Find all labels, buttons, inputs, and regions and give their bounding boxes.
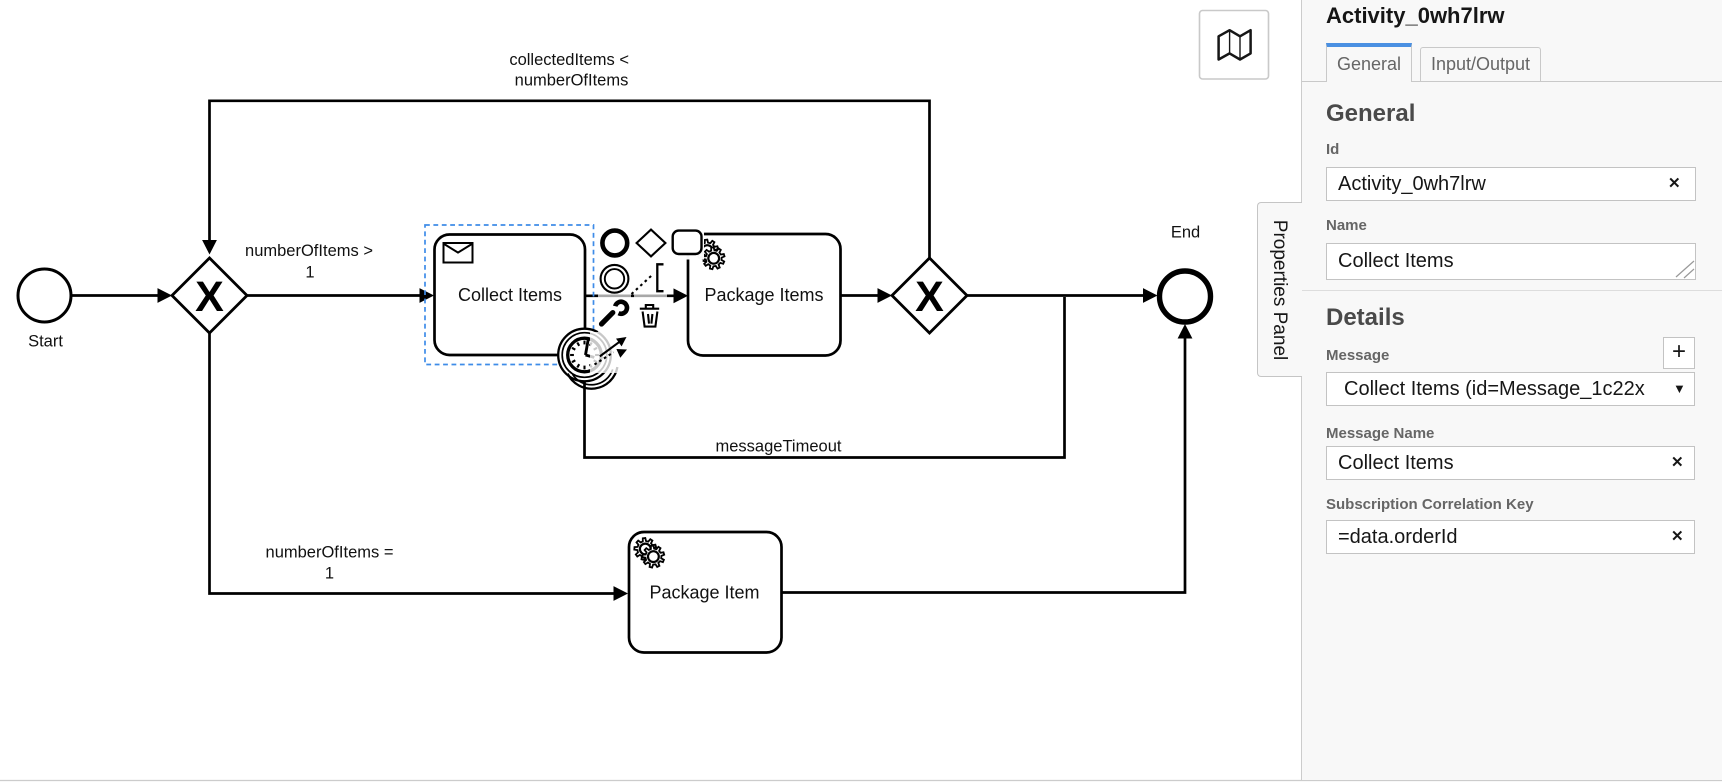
svg-text:End: End <box>1171 224 1200 242</box>
wire Package Items to Gateway2 <box>841 294 881 297</box>
wire Gateway1 to Collect Items (numberOfItems > 1) <box>247 294 422 297</box>
timer boundary event drag ghost arcs <box>568 367 618 389</box>
svg-text:X: X <box>915 273 944 321</box>
context pad: append intermediate event icon <box>601 265 629 293</box>
wire Collect Items to Package Items <box>585 294 677 297</box>
svg-text:X: X <box>195 273 224 321</box>
arrowhead into End bottom <box>1178 324 1193 339</box>
svg-text:collectedItems <: collectedItems < <box>509 51 629 69</box>
selection outline (Collect Items selected) <box>425 225 594 365</box>
svg-text:1: 1 <box>305 263 314 281</box>
wire Gateway2 to End <box>967 294 1146 297</box>
wire Gateway1 bottom to Package Item (numberOfItems = 1) <box>210 333 617 594</box>
wire Start to Gateway1 <box>72 294 160 297</box>
clear button for Message Name <box>1671 453 1684 471</box>
context pad: append gateway icon <box>637 230 666 257</box>
task Package Item (service task) <box>629 532 782 653</box>
properties panel collapse tab <box>1257 202 1302 377</box>
gateway G2 (exclusive XOR merge) <box>892 258 967 333</box>
section heading General <box>1326 100 1415 128</box>
svg-text:Collect Items: Collect Items <box>458 285 562 305</box>
service gear marker on Package Item <box>634 538 664 568</box>
tabs bottom border <box>1302 81 1722 82</box>
context pad: connect tool arrow <box>600 337 627 356</box>
select Message <box>1326 372 1695 406</box>
svg-text:Start: Start <box>28 333 63 351</box>
minimap toggle button <box>1200 11 1269 80</box>
svg-text:messageTimeout: messageTimeout <box>716 438 842 456</box>
arrowhead into Package Items <box>674 288 689 303</box>
svg-text:numberOfItems >: numberOfItems > <box>245 242 373 260</box>
svg-text:Package Item: Package Item <box>649 583 759 603</box>
svg-text:numberOfItems =: numberOfItems = <box>266 544 394 562</box>
wire Package Item to End <box>782 336 1186 593</box>
select dropdown arrow <box>1673 381 1686 396</box>
label Id <box>1326 141 1339 158</box>
context pad: wrench (change type) icon <box>602 302 627 324</box>
clear button for Subscription Correlation Key <box>1671 527 1684 545</box>
tab General (active) <box>1326 43 1412 82</box>
label Message <box>1326 347 1389 364</box>
label Name <box>1326 217 1367 234</box>
properties panel container <box>1301 0 1722 780</box>
end event (End) <box>1160 271 1211 322</box>
timer boundary event (messageTimeout) <box>558 329 611 382</box>
canvas bottom border <box>0 780 1722 782</box>
arrowhead into End <box>1143 288 1158 303</box>
input Subscription Correlation Key <box>1326 520 1695 554</box>
context pad: trash (delete) icon <box>640 305 659 327</box>
section heading Details <box>1326 304 1405 332</box>
add message + button <box>1663 337 1695 369</box>
start event (Start) <box>18 269 71 322</box>
arrowhead into Collect Items <box>420 288 435 303</box>
arrowhead into Gateway1 from Start <box>158 288 173 303</box>
message icon on Collect Items <box>444 243 473 263</box>
input Id <box>1326 167 1696 201</box>
context pad: dotted connect (association) arrow <box>595 349 628 365</box>
wire messageTimeout from timer boundary event <box>585 297 1065 458</box>
context pad: append task icon <box>673 231 702 254</box>
task Package Items (service task) <box>688 234 841 356</box>
context pad background <box>598 226 631 333</box>
label Subscription Correlation Key <box>1326 496 1534 513</box>
clock hands <box>586 339 589 355</box>
tab Input/Output <box>1420 47 1541 81</box>
svg-text:Package Items: Package Items <box>704 285 823 305</box>
arrowhead into Gateway2 <box>878 288 893 303</box>
group divider <box>1302 290 1722 291</box>
svg-text:numberOfItems: numberOfItems <box>515 72 629 90</box>
textarea resize handle <box>1674 259 1696 279</box>
wire loop back Gateway2 top to Gateway1 top (collectedItems < numberOfItems) <box>210 101 930 258</box>
panel title Activity_0wh7lrw <box>1326 3 1505 29</box>
context pad: text annotation icon <box>657 264 663 291</box>
task Collect Items (receive/message task) <box>435 235 586 356</box>
label Message Name <box>1326 425 1434 442</box>
context pad: append end event icon <box>602 231 627 256</box>
textarea Name <box>1326 243 1696 280</box>
service gear marker on Package Items <box>696 240 724 270</box>
gateway G1 (exclusive XOR) <box>172 258 247 333</box>
arrowhead into Gateway1 top (loop back) <box>202 240 217 255</box>
input Message Name <box>1326 446 1695 480</box>
arrowhead into Package Item <box>614 586 629 601</box>
svg-text:1: 1 <box>325 564 334 582</box>
clear button for Id <box>1668 174 1681 192</box>
